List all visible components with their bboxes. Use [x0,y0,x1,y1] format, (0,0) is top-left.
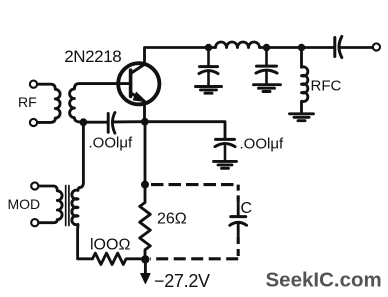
capacitor C (feedback, dashed box) [230,217,247,226]
svg-text:.OOlμf: .OOlμf [240,136,284,153]
node junction dot (pi filter left) [205,44,212,51]
capacitor C5 (output series cap) [335,37,342,58]
node RF input terminal top [30,81,37,88]
wire RFC node to output cap [302,46,335,49]
svg-text:.OOlμf: .OOlμf [89,135,133,152]
wire emitter down [143,102,146,122]
capacitor C4 (pi-filter right, to ground) [256,48,277,84]
node MOD terminal top [31,182,38,189]
wire top rail L1 to RFC node [267,46,302,49]
transformer T1 primary (RF) [37,84,60,122]
node RF input terminal bottom [30,119,37,126]
wire junction down to T2 secondary [80,122,84,187]
svg-text:lOOΩ: lOOΩ [90,237,130,254]
capacitor C3 (pi-filter left, to ground) [199,48,218,86]
wire cap .001 to emitter node [114,120,145,123]
inductor L1 (top pi-filter coil) [209,42,267,48]
node junction dot (R2 top) [141,181,149,189]
wire collector top rail [145,48,209,65]
svg-text:C: C [241,200,253,217]
dashed line top (to C feedback) [151,183,238,186]
ground (pi-filter right cap) [254,85,281,92]
transformer T2 primary (MOD) [39,186,63,223]
svg-text:−27.2V: −27.2V [154,271,210,291]
resistor R2 26 ohm [140,185,151,260]
transformer T2 core [66,186,69,226]
transformer T2 secondary (MOD) [72,188,93,259]
inductor RFC [302,48,308,113]
wire C cap top lead [237,202,240,216]
svg-text:2N2218: 2N2218 [64,47,121,66]
ground (emitter bypass cap) [214,161,237,168]
wire emitter node right [145,122,225,139]
node RF output terminal [373,43,380,50]
node junction dot (R1/R2/-27.2V) [141,255,149,263]
svg-text:RFC: RFC [311,78,342,95]
ground (RFC) [290,114,314,121]
wire C cap bottom lead [237,224,240,238]
svg-text:SeekIC.com: SeekIC.com [266,269,382,292]
node junction dot (RFC top) [298,44,305,51]
node junction dot (T1/T2/C1) [80,118,88,126]
dashed line bottom (from C feedback) [237,237,240,259]
node junction dot (pi filter right) [263,44,270,51]
capacitor C1 .001uf (series, base-emitter bottom) [108,113,115,134]
wire emitter node down to R2 [144,122,147,185]
svg-text:MOD: MOD [8,196,41,212]
wire output cap to terminal [341,46,373,49]
svg-text:26Ω: 26Ω [157,211,187,228]
wire secondary bottom to cap .001 [83,121,107,124]
transformer T1 secondary (RF) [70,84,130,123]
node MOD terminal bottom [31,219,38,226]
transistor Q1 2N2218 [118,63,159,104]
ground (pi-filter left cap) [196,87,222,94]
node junction dot (emitter) [141,118,149,126]
resistor R1 100 ohm [93,253,146,264]
arrow -27.2V supply [144,259,147,275]
capacitor C2 .001uf (emitter bypass, to ground) [215,139,235,160]
svg-text:RF: RF [18,94,37,110]
